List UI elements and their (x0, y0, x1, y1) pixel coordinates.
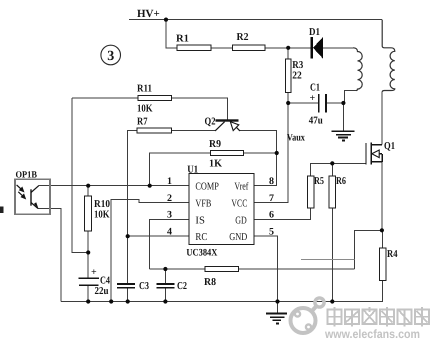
resistor R1 (177, 45, 211, 51)
node HV+/drop (164, 18, 168, 22)
svg-text:1K: 1K (209, 159, 223, 170)
svg-text:C3: C3 (139, 281, 149, 292)
wire R11 left lead (72, 97, 138, 99)
wire R10 node to C4 (87, 253, 89, 279)
svg-text:R7: R7 (137, 117, 148, 128)
wire R2 to node (265, 47, 311, 49)
svg-text:6: 6 (269, 210, 274, 221)
wire C3 bottom lead (127, 288, 129, 302)
svg-text:R6: R6 (336, 176, 346, 187)
IC U1 box (189, 174, 254, 245)
wire C1 right to node (326, 102, 343, 104)
wire D1 to transformer primary (323, 47, 353, 49)
wire R9 left lead and drop to pin1 (150, 153, 211, 186)
svg-text:47u: 47u (309, 116, 323, 127)
svg-text:OP1B: OP1B (16, 170, 38, 180)
svg-text:8: 8 (269, 176, 274, 187)
svg-text:3: 3 (107, 49, 114, 64)
wire Vaux vertical to VCC pin7 (254, 103, 288, 203)
svg-text:R2: R2 (237, 32, 249, 43)
wire C2 bottom lead (164, 288, 166, 302)
wire source node to sense jog (355, 230, 382, 269)
svg-text:C4: C4 (100, 276, 111, 287)
svg-text:10K: 10K (137, 104, 153, 115)
wire R9 right lead (243, 152, 276, 154)
watermark logo (291, 298, 325, 333)
capacitor C1 (319, 94, 326, 113)
node rail C2 (163, 299, 167, 303)
wire R6 top (331, 163, 333, 176)
resistor R7 (137, 128, 171, 133)
svg-text:R8: R8 (204, 277, 216, 288)
svg-text:IS: IS (195, 216, 205, 227)
wire RC pin4 (128, 235, 189, 237)
svg-text:Q2: Q2 (205, 117, 216, 128)
svg-text:2: 2 (167, 193, 172, 204)
node R9/pin1 (148, 184, 152, 188)
resistor R6 (329, 176, 336, 208)
wire C4 bottom lead (87, 285, 89, 301)
wire R5 bottom to GD pin6 (254, 208, 311, 219)
capacitor C4 (78, 278, 99, 285)
resistor R10 (85, 196, 92, 231)
wire faint stub row (301, 259, 355, 261)
wire opto emitter down (38, 209, 61, 302)
svg-text:VFB: VFB (195, 199, 211, 210)
svg-text:5: 5 (269, 226, 274, 237)
wire R7 left lead down C3 rail (128, 131, 138, 284)
svg-text:Q1: Q1 (384, 141, 395, 152)
wire R4 bottom lead to ground rail (61, 281, 383, 302)
optocoupler light arrows (17, 185, 26, 199)
node pin4/RC rail (126, 234, 130, 238)
node R10 bottom/R11 (86, 250, 90, 254)
edge artifact left (0, 207, 4, 214)
wire VFB pin2 jog to ground rail (111, 199, 189, 301)
svg-text:10K: 10K (94, 210, 110, 221)
svg-text:Vref: Vref (234, 182, 248, 193)
wire R4 top lead (382, 230, 384, 248)
ground bottom center (266, 313, 287, 323)
wire node to C1 left (288, 102, 318, 104)
svg-text:R11: R11 (137, 84, 152, 95)
svg-text:Vaux: Vaux (287, 133, 305, 144)
wire IS pin3 down to C2/R8 row (150, 219, 189, 269)
node rail GND pin (275, 299, 279, 303)
resistor R9 (211, 150, 244, 155)
wire R8 left lead to C2 node (150, 268, 206, 270)
svg-text:www.elecfans.com: www.elecfans.com (324, 327, 420, 341)
svg-text:VCC: VCC (231, 199, 247, 210)
svg-text:U1: U1 (187, 165, 198, 176)
wire gate row (311, 163, 366, 176)
node rail C4 (86, 299, 90, 303)
svg-text:R9: R9 (209, 139, 221, 150)
node R2/D1/R3 (286, 46, 290, 50)
svg-text:1: 1 (167, 176, 172, 187)
wire GND pin5 to ground (254, 236, 278, 301)
transformer T primary winding (353, 48, 362, 91)
svg-text:3: 3 (167, 210, 172, 221)
node gate/R6 (330, 161, 334, 165)
svg-text:22: 22 (292, 71, 302, 82)
svg-text:22u: 22u (95, 286, 109, 297)
wire R11 left drop to R10 node (72, 98, 88, 253)
wire R3 top lead (287, 48, 289, 59)
wire primary bottom to C1 node (344, 91, 356, 104)
node C2/R8 (163, 267, 167, 271)
resistor R5 (307, 176, 314, 208)
node rail VFB (109, 299, 113, 303)
svg-text:GD: GD (235, 216, 247, 227)
transformer T secondary winding (382, 20, 395, 92)
svg-text:RC: RC (195, 232, 207, 243)
optocoupler phototransistor (31, 186, 39, 209)
wire HV+ drop to R1 (166, 20, 177, 48)
watermark CJK text blocks (328, 307, 430, 327)
svg-text:R1: R1 (176, 34, 189, 45)
wire R10 top lead (87, 186, 89, 196)
node R3/C1 (286, 101, 290, 105)
node C1/primary/ground (341, 101, 345, 105)
wire R11 right lead to Q2 base (172, 98, 228, 119)
svg-text:C2: C2 (177, 281, 187, 292)
wire Q1 source down to node (381, 162, 383, 230)
wire HV+ top rail (129, 19, 382, 21)
resistor R8 (205, 266, 238, 271)
wire R1 to R2 (211, 47, 233, 49)
wire C2 top stub (164, 269, 166, 284)
svg-text:COMP: COMP (195, 182, 219, 193)
wire R10 bottom lead (87, 231, 89, 252)
svg-text:+: + (91, 267, 97, 278)
wire R6 bottom to ground rail (331, 208, 333, 302)
svg-text:R3: R3 (292, 60, 303, 71)
resistor R2 (232, 45, 264, 51)
svg-text:D1: D1 (309, 27, 320, 38)
capacitor C3 (117, 284, 135, 288)
node rail R6 (330, 299, 334, 303)
wire R8 row to jog (238, 268, 354, 270)
wire opto collector to pin1 COMP (39, 185, 189, 187)
svg-text:UC384X: UC384X (186, 247, 218, 258)
node R10 top (86, 184, 90, 188)
svg-text:R10: R10 (94, 199, 110, 210)
svg-text:R4: R4 (387, 249, 398, 260)
svg-text:4: 4 (167, 226, 172, 237)
capacitor C2 (157, 284, 175, 288)
resistor R3 (285, 59, 291, 93)
svg-text:GND: GND (229, 232, 247, 243)
svg-text:HV+: HV+ (137, 8, 160, 20)
svg-text:7: 7 (269, 193, 274, 204)
transistor Q1 MOSFET (366, 143, 382, 165)
transistor Q2 (215, 119, 240, 131)
node rail C3 (126, 299, 130, 303)
wire Vref node down to pin8 (254, 153, 277, 186)
ground near C1 (332, 131, 355, 140)
svg-text:+: + (310, 93, 316, 104)
circled figure number 3 (101, 45, 121, 65)
wire C1 node to ground stem (342, 103, 344, 131)
node Q1 source/R4 (380, 228, 384, 232)
resistor R4 (379, 248, 386, 281)
wire secondary bottom to Q1 drain (381, 92, 383, 145)
wire ground stem bottom center (277, 302, 279, 314)
svg-text:C1: C1 (310, 83, 320, 94)
wire Q2 emitter row to Vref node (240, 131, 277, 153)
svg-text:R5: R5 (314, 176, 324, 187)
diode D1 (310, 37, 322, 58)
optocoupler OP1B box (15, 179, 50, 214)
resistor R11 (138, 95, 172, 100)
node R9/Q2/Vref (275, 151, 279, 155)
wire R7 right lead to Q2 collector (172, 130, 216, 132)
wire R3 bottom lead (287, 93, 289, 104)
